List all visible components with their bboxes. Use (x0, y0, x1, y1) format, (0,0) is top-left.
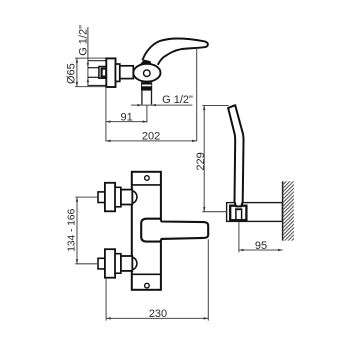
leader line G 1/2 (87, 27, 89, 87)
extension line 202 right (lever tip) (196, 48, 198, 141)
bottom connection flange (105, 249, 115, 278)
arrow 134-166 bottom (76, 259, 79, 264)
extension line Ø65 bottom (75, 86, 106, 88)
bottom screw (145, 283, 150, 288)
extension line 230 left (105, 278, 107, 321)
bottom connection nut (121, 256, 132, 271)
clamp screw bar (235, 208, 242, 210)
body (front) (132, 172, 161, 290)
top plate seam (132, 184, 161, 186)
arrow Ø65 top (76, 58, 79, 63)
svg-text:Ø65: Ø65 (66, 63, 78, 84)
arrow 229 bottom (203, 207, 206, 212)
dimension line 134-166 (76, 197, 78, 264)
dimension line Ø65 (76, 58, 78, 87)
lever handle fill (142, 39, 208, 65)
dimension line 95 (239, 249, 283, 251)
bottom connection dome (132, 257, 137, 269)
dimension line 202 (106, 140, 197, 142)
extension line 91/202 left (105, 87, 107, 141)
lever pivot wedge (dark) (140, 60, 152, 65)
flange (side) (106, 58, 115, 87)
svg-text:229: 229 (195, 152, 207, 170)
extension line 91 right (outlet axis) (146, 106, 148, 123)
wall nut outer (99, 67, 106, 79)
arrow 202 left (106, 140, 111, 143)
bottom connection eccentric (115, 254, 121, 274)
hand shower wand (228, 105, 243, 206)
extension line Ø65 top (75, 57, 106, 59)
top connection stub (98, 192, 105, 203)
arrow 95 right (278, 249, 283, 252)
svg-text:G 1/2": G 1/2" (162, 94, 193, 106)
top connection eccentric (115, 187, 121, 207)
top screw (145, 176, 150, 181)
extension line 230 right (207, 239, 209, 320)
lever handle outline (142, 39, 208, 65)
extension line 134-166 bottom (75, 263, 98, 265)
step piece (116, 64, 120, 81)
shower holder clamp (230, 206, 246, 221)
svg-text:95: 95 (255, 240, 267, 252)
svg-text:202: 202 (142, 130, 160, 142)
wall nut inner (102, 69, 107, 77)
dimension line 230 (106, 317, 208, 319)
wall hatching (283, 173, 295, 253)
wall line (282, 181, 284, 240)
body neck (120, 66, 134, 79)
arrow outlet left (137, 104, 142, 107)
handle screw (144, 70, 151, 77)
outlet collar (dark) (141, 82, 152, 90)
supply pipe stub lines (88, 67, 99, 69)
wall bracket arm box (227, 203, 283, 222)
svg-text:230: 230 (149, 308, 167, 320)
extension line 229 bottom (202, 211, 226, 213)
arrow 91 right (143, 120, 148, 123)
outlet collar stripe (142, 85, 151, 87)
arrow G1/2 top (pointing down at pipe) (87, 63, 90, 67)
eccentric union body behind flange (88, 60, 106, 62)
outlet dimension line (131, 104, 192, 106)
bottom connection stub (98, 258, 105, 269)
outlet tube right (151, 91, 153, 105)
svg-text:91: 91 (120, 111, 132, 123)
top connection dome (132, 191, 137, 203)
arrow Ø65 bottom (76, 82, 79, 87)
extension line 134-166 top (75, 196, 98, 198)
arrow 202 right (192, 140, 197, 143)
arrow 134-166 top (76, 197, 79, 202)
arrow 230 right (204, 317, 209, 320)
clamp stem right (241, 210, 243, 220)
bottom plate seam (132, 273, 161, 275)
extension line 95 left (238, 222, 240, 253)
arrow 91 left (106, 120, 111, 123)
top connection nut (121, 190, 132, 205)
dimension line 229 (203, 106, 205, 212)
arrow 230 left (106, 317, 111, 320)
arrow 95 left (239, 249, 244, 252)
top connection flange (105, 183, 115, 212)
mixer body (ellipse) (133, 64, 160, 82)
svg-text:134 - 166: 134 - 166 (66, 208, 77, 251)
spout (front) (141, 219, 208, 242)
outlet tube left (141, 91, 143, 105)
arrow outlet right (152, 104, 157, 107)
arrow G1/2 bottom (pointing up at pipe) (87, 78, 90, 82)
extension line 229 top (202, 105, 228, 107)
dimension line 91 (106, 121, 147, 123)
clamp stem left (235, 210, 237, 220)
arrow 229 top (203, 106, 206, 111)
